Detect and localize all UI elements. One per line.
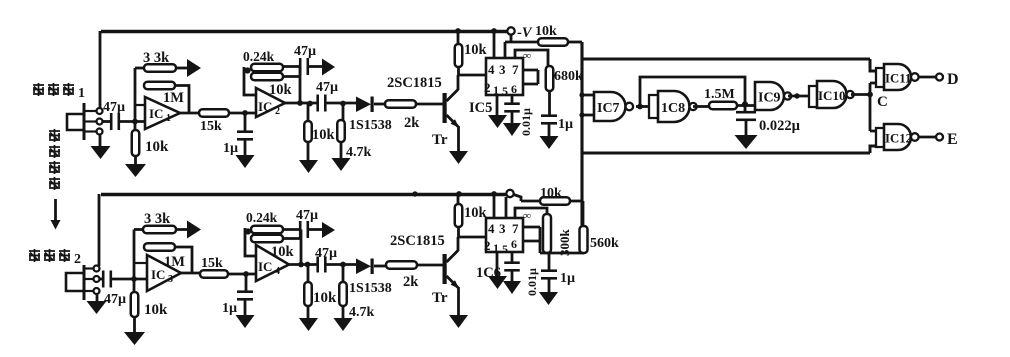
- svg-text:1C6: 1C6: [476, 265, 501, 281]
- node rail 10k junction ch1: [455, 28, 461, 34]
- wire IC6 pin4: [493, 194, 496, 218]
- node IC6 pin4 rail junction: [491, 191, 497, 197]
- label sensor 1 (Chinese): [33, 83, 44, 96]
- ground 10k input ch1: [125, 164, 146, 177]
- resistor 4.7k ch1: [342, 103, 345, 120]
- svg-text:2: 2: [275, 106, 280, 117]
- op-amp IC4: [256, 245, 289, 281]
- capacitor 47u coupling ch1: [316, 95, 319, 112]
- node A2 junction: [131, 276, 137, 282]
- svg-text:1: 1: [78, 86, 85, 101]
- wire IC5 pin3: [504, 42, 507, 58]
- gate IC8: [658, 91, 690, 122]
- wire IC2 output: [285, 102, 318, 105]
- IC5 timer box: [486, 58, 523, 95]
- svg-text:IC10: IC10: [818, 88, 845, 103]
- svg-text:-V: -V: [517, 25, 533, 41]
- svg-text:2: 2: [484, 80, 491, 95]
- node 1.5M-C junction: [742, 101, 748, 107]
- svg-text:10k: 10k: [535, 24, 557, 39]
- svg-text:4.7k: 4.7k: [346, 145, 372, 160]
- op-amp IC3: [147, 255, 181, 291]
- svg-text:6: 6: [511, 82, 517, 96]
- wire IC5 pin5: [511, 95, 514, 104]
- ground IC6 pin1: [488, 276, 507, 289]
- node A1 junction: [132, 119, 138, 125]
- wire sensor2 lower to ground: [96, 294, 99, 302]
- capacitor 1u ch2: [245, 274, 248, 292]
- wire logic box bottom: [582, 146, 876, 153]
- resistor 10k timing ch1: [538, 38, 568, 46]
- wire IC6 pins 6-7 loop: [523, 227, 540, 253]
- svg-text:D: D: [947, 71, 959, 88]
- wire IC8 out to 1.5M: [693, 105, 709, 108]
- terminal rail end ch2: [506, 190, 513, 197]
- arrow moving direction: [54, 199, 57, 221]
- supply arrow 47u ch1: [322, 59, 335, 76]
- wire feedback right side ch2: [283, 230, 301, 266]
- wire feedback loop gates: [640, 77, 745, 107]
- node 4.7k junction ch1: [340, 101, 346, 107]
- capacitor 47u supply ch2: [299, 221, 302, 238]
- resistor 3.3k ch1: [135, 67, 144, 70]
- svg-text:1S1538: 1S1538: [349, 281, 392, 296]
- resistor 1.5M: [709, 102, 737, 110]
- ground Tr emitter ch1: [449, 151, 468, 164]
- wire 2k to Tr base ch2: [417, 264, 443, 267]
- svg-text:47µ: 47µ: [315, 246, 337, 261]
- ground 1u timing ch2: [539, 292, 558, 305]
- wire Tr emitter to ground ch2: [457, 287, 460, 315]
- svg-text:3 3k: 3 3k: [143, 50, 170, 66]
- node B1 junction: [242, 110, 248, 116]
- wire C2 to arrow: [308, 65, 323, 68]
- resistor 10k feedback ch1: [251, 73, 283, 81]
- resistor 10k input ch2: [131, 292, 139, 317]
- ground 0.01u ch1: [503, 123, 521, 136]
- svg-text:2SC1815: 2SC1815: [387, 75, 442, 91]
- resistor 15k ch1: [199, 109, 229, 117]
- resistor 3.3k ch2: [134, 228, 143, 231]
- wire IC5 pins 6-7 loop: [523, 70, 538, 84]
- svg-text:10k: 10k: [144, 302, 168, 318]
- wire left bus: [580, 42, 583, 226]
- wire IC7 out: [636, 105, 649, 108]
- wire IC1 output: [180, 112, 199, 115]
- resistor 680k: [546, 66, 554, 91]
- svg-text:1: 1: [493, 83, 499, 97]
- resistor 10k collector ch1: [457, 31, 460, 44]
- terminal -V: [507, 27, 514, 34]
- wire -V to 10k: [505, 35, 538, 42]
- svg-text:7: 7: [512, 221, 519, 236]
- wire 1.5M to IC9: [737, 104, 755, 107]
- ground sensor2: [87, 301, 107, 314]
- resistor 0.24k ch2: [251, 226, 283, 234]
- IC6 timer box: [486, 218, 523, 252]
- svg-text:IC11: IC11: [885, 72, 911, 86]
- wire sensor1 lower terminal to ground: [99, 134, 102, 147]
- ground 10k output ch1: [299, 160, 318, 173]
- svg-text:1.5M: 1.5M: [704, 87, 735, 102]
- gate IC11 input bracket: [876, 68, 884, 87]
- resistor 10k feedback ch2: [251, 235, 283, 243]
- wire terminal to 10k ch2: [514, 195, 540, 202]
- svg-text:0.01µ: 0.01µ: [519, 108, 533, 136]
- svg-text:10k: 10k: [312, 127, 336, 143]
- ground 10k output ch2: [299, 318, 318, 331]
- capacitor 1u timing ch1: [541, 114, 557, 117]
- wire IC11 to D: [918, 76, 936, 79]
- node IC4 feedback junction: [245, 228, 251, 234]
- terminal D: [936, 74, 943, 81]
- wire Tr collector ch2: [457, 237, 460, 251]
- svg-text:1µ: 1µ: [558, 117, 573, 132]
- svg-text:47µ: 47µ: [103, 100, 125, 115]
- wire rail drop to sensor 1: [99, 31, 102, 108]
- diode 1S1538 ch2: [356, 259, 371, 275]
- svg-text:0.01µ: 0.01µ: [525, 268, 539, 296]
- wire feedback right side ch1: [283, 67, 300, 104]
- svg-text:4: 4: [488, 62, 495, 77]
- svg-text:Tr: Tr: [432, 132, 448, 148]
- svg-text:IC: IC: [151, 267, 165, 282]
- op-amp IC2: [256, 88, 285, 117]
- resistor 560k: [582, 201, 585, 226]
- svg-text:1µ: 1µ: [222, 301, 237, 316]
- resistor 10k output ch2: [307, 265, 310, 283]
- label moving direction (Chinese, rotated): [49, 129, 60, 142]
- wire diode to 2k ch2: [374, 265, 386, 268]
- resistor 4.7k ch2: [342, 265, 345, 283]
- wire 0.24k to C4: [283, 228, 300, 231]
- svg-text:2k: 2k: [403, 274, 419, 290]
- wire 15k to IC2: [229, 112, 256, 115]
- wire 47u to diode ch2: [325, 263, 357, 266]
- wire IC3 output: [181, 272, 200, 275]
- node IC5 pin4 rail junction: [491, 28, 497, 34]
- capacitor 0.01u ch1: [504, 102, 520, 105]
- wire Tr emitter to ground: [457, 126, 460, 151]
- resistor 10k input ch1: [132, 130, 140, 156]
- gate IC7: [594, 92, 626, 121]
- wire top supply rail ch1: [101, 30, 508, 33]
- svg-text:10k: 10k: [145, 139, 169, 155]
- svg-text:3: 3: [499, 221, 506, 236]
- supply arrow 47u ch2: [322, 222, 335, 238]
- wire C3 to node A2: [111, 278, 147, 281]
- wire 2k to Tr base: [416, 103, 443, 106]
- svg-text:2: 2: [484, 238, 491, 253]
- label sensor 2 (Chinese): [29, 249, 40, 262]
- svg-text:10k: 10k: [464, 42, 488, 58]
- svg-text:10k: 10k: [540, 186, 562, 201]
- ground 0.01u ch2: [503, 281, 521, 294]
- svg-text:1M: 1M: [163, 90, 184, 106]
- svg-text:680k: 680k: [554, 69, 583, 84]
- resistor 10k timing ch2: [540, 197, 570, 205]
- wire IC4 minus vertical: [245, 228, 256, 256]
- svg-text:E: E: [947, 131, 958, 148]
- svg-text:15k: 15k: [200, 119, 222, 134]
- wire IC2 minus vertical: [244, 67, 256, 95]
- wire 680k to 1u: [548, 91, 551, 116]
- capacitor 47u input ch1: [110, 113, 113, 130]
- svg-text:560k: 560k: [590, 236, 619, 251]
- resistor 10k collector ch2: [457, 194, 460, 204]
- node 4.7k junction ch2: [340, 262, 346, 268]
- capacitor 47u input ch2: [102, 271, 105, 288]
- ground Tr emitter ch2: [449, 315, 468, 328]
- wire IC10 out to node C: [851, 93, 870, 96]
- node rail 10k junction ch2: [456, 191, 462, 197]
- ground 0.022u: [735, 135, 758, 149]
- svg-text:IC12: IC12: [885, 132, 912, 146]
- svg-text:4: 4: [275, 266, 280, 277]
- wire Tr collector: [457, 75, 460, 90]
- ground 4.7k ch1: [332, 158, 351, 171]
- gate IC10 input bracket: [809, 86, 817, 107]
- capacitor 47u supply ch1: [299, 58, 302, 75]
- wire sensor2 mid to C3: [100, 278, 103, 281]
- svg-text:15k: 15k: [201, 256, 223, 271]
- svg-text:0.022µ: 0.022µ: [759, 118, 801, 134]
- resistor 2k ch1: [385, 100, 416, 108]
- diode 1S1538 ch1: [356, 97, 371, 113]
- resistor 1M feedback ch1: [144, 82, 175, 90]
- svg-text:IC5: IC5: [469, 100, 492, 116]
- svg-text:Tr: Tr: [432, 290, 448, 306]
- supply arrow 3.3k ch2: [187, 221, 201, 239]
- svg-text:3 3k: 3 3k: [144, 211, 171, 227]
- svg-text:1µ: 1µ: [560, 271, 575, 286]
- svg-text:2: 2: [74, 252, 81, 267]
- svg-text:IC: IC: [258, 259, 272, 274]
- svg-text:3: 3: [168, 274, 173, 285]
- op-amp IC1: [145, 97, 180, 129]
- svg-text:10k: 10k: [464, 205, 488, 221]
- svg-text:4: 4: [488, 221, 495, 236]
- wire IC6 pin5: [511, 252, 514, 263]
- wire 47u to diode: [325, 102, 357, 105]
- wire C1 to node A1: [119, 120, 145, 123]
- ground 4.7k ch2: [334, 318, 353, 331]
- svg-text:47µ: 47µ: [316, 80, 338, 95]
- svg-text:2k: 2k: [404, 115, 420, 131]
- wire node C vertical: [870, 83, 876, 131]
- wire logic box top: [582, 59, 876, 71]
- wire supply rail ch2: [101, 193, 508, 196]
- capacitor 47u coupling ch2: [316, 257, 319, 273]
- ground 1u timing ch1: [540, 136, 559, 149]
- node IC4 out junction: [298, 262, 304, 268]
- capacitor 1u ch1: [244, 113, 247, 132]
- svg-text:6: 6: [511, 237, 517, 251]
- wire IC12 to E: [918, 136, 936, 139]
- node IC2 out junction: [297, 100, 303, 106]
- resistor 15k ch2: [200, 270, 228, 278]
- wire IC5 pin1 ground: [496, 95, 499, 116]
- svg-text:1S1538: 1S1538: [349, 118, 392, 133]
- svg-text:0.24k: 0.24k: [246, 210, 278, 225]
- sensor S2 body: [83, 265, 86, 300]
- svg-text:IC: IC: [149, 106, 163, 121]
- ground 10k input ch2: [124, 332, 145, 345]
- transistor Tr ch2 2SC1815: [443, 254, 447, 284]
- gate IC11: [884, 64, 911, 90]
- svg-text:4.7k: 4.7k: [349, 305, 375, 320]
- wire timing bottom ch2: [540, 252, 584, 255]
- wire minus input IC1: [135, 104, 145, 106]
- svg-text:3: 3: [499, 62, 506, 77]
- svg-text:47µ: 47µ: [294, 44, 316, 59]
- svg-text:2SC1815: 2SC1815: [390, 233, 445, 249]
- wire sensor1 mid terminal to C1: [103, 120, 112, 123]
- terminal E: [936, 134, 943, 141]
- wire IC6 pin3: [505, 197, 508, 218]
- svg-text:7: 7: [512, 62, 519, 77]
- svg-text:10k: 10k: [313, 290, 337, 306]
- capacitor 0.022u: [744, 106, 747, 113]
- wire C4 to arrow: [308, 228, 323, 231]
- gate IC12 input bracket: [876, 128, 884, 147]
- wire diode to 2k: [374, 103, 385, 106]
- svg-text:5: 5: [502, 84, 508, 98]
- svg-text:0.24k: 0.24k: [243, 49, 275, 64]
- wire collector to IC5 pin2: [458, 74, 486, 77]
- wire collector to IC6 pin2: [458, 236, 486, 239]
- gate IC8 input bracket: [649, 95, 657, 118]
- wire feedback bus ch1 (node A1 vertical): [134, 68, 137, 130]
- svg-text:5: 5: [502, 242, 508, 256]
- node B2 junction: [243, 271, 249, 277]
- node C junction: [867, 92, 873, 98]
- wire 0.24k to C2: [283, 65, 300, 68]
- resistor 300k: [543, 214, 551, 253]
- svg-text:IC7: IC7: [597, 101, 620, 116]
- supply arrow 3.3k ch1: [187, 59, 201, 77]
- svg-text:IC: IC: [258, 99, 272, 114]
- ground 1u ch2: [236, 315, 255, 328]
- gate IC12: [884, 124, 911, 150]
- ground sensor1: [91, 146, 111, 159]
- svg-text:1C8: 1C8: [661, 101, 685, 116]
- sensor S2 terminal pins: [85, 267, 93, 269]
- resistor 0.24k ch1: [251, 64, 283, 72]
- sensor S1 body: [83, 103, 86, 140]
- svg-text:C: C: [877, 94, 888, 110]
- wire IC6 pin1 ground: [496, 252, 499, 277]
- wire IC4 output: [289, 263, 318, 266]
- wire feedback bus ch2: [133, 230, 136, 293]
- sensor S1 terminal pins: [85, 110, 96, 112]
- wire IC6 pin7 to 300k: [515, 208, 547, 218]
- svg-text:47µ: 47µ: [104, 292, 126, 307]
- resistor 2k ch2: [386, 261, 417, 269]
- capacitor 0.01u ch2: [504, 261, 520, 264]
- svg-text:1µ: 1µ: [223, 141, 238, 156]
- svg-text:IC9: IC9: [758, 91, 781, 106]
- gate IC10: [817, 81, 847, 108]
- ground IC5 pin1: [488, 115, 507, 128]
- node IC7-IC8 junction: [637, 104, 643, 110]
- capacitor 1u timing ch2: [548, 253, 551, 271]
- wire IC5 pin7 to 680k: [515, 50, 548, 66]
- wire minus input IC3: [134, 262, 147, 264]
- wire 15k to IC4: [228, 273, 256, 276]
- node IC2 feedback junction: [244, 67, 250, 73]
- wire IC9 to IC10: [788, 95, 809, 98]
- resistor 1M feedback ch2: [144, 243, 175, 251]
- wire IC5 pin4: [493, 31, 496, 58]
- svg-text:1: 1: [166, 113, 171, 124]
- transistor Tr ch1 2SC1815: [443, 93, 447, 123]
- ground 1u ch1: [236, 155, 255, 168]
- svg-text:47µ: 47µ: [296, 208, 318, 223]
- resistor 10k output ch1: [307, 103, 310, 121]
- gate IC9: [755, 82, 784, 110]
- wire rail drop to sensor 2: [98, 194, 101, 266]
- wire IC7 inputs: [582, 95, 594, 115]
